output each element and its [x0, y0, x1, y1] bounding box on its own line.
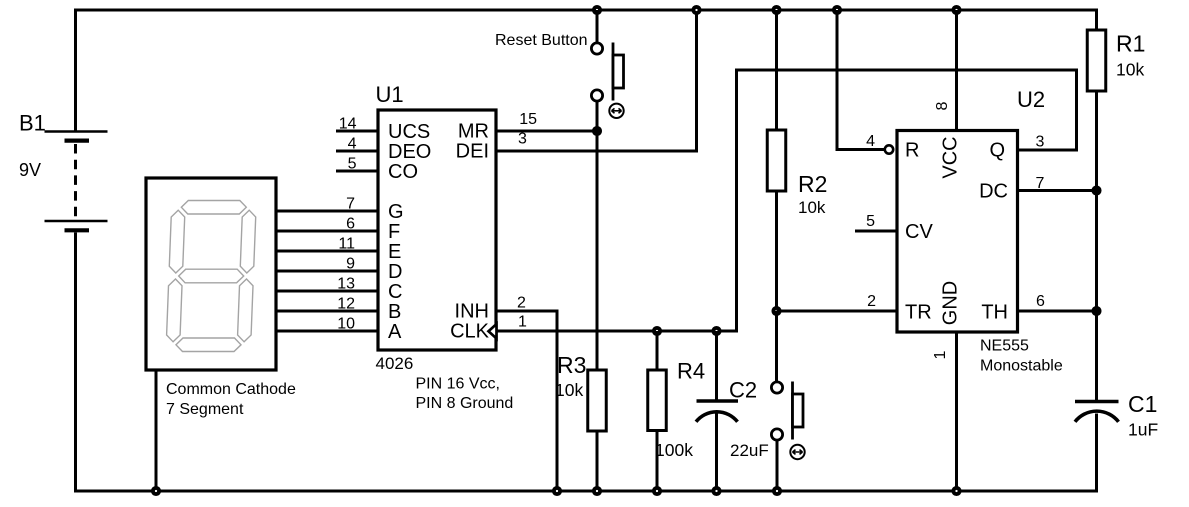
- svg-text:7: 7: [1036, 175, 1045, 192]
- svg-text:B: B: [388, 301, 401, 323]
- wire: battery bottom lead: [74, 233, 77, 493]
- junction: C2 / ground rail: [713, 488, 719, 494]
- svg-text:5: 5: [348, 156, 357, 173]
- wire: R3 to ground rail: [596, 431, 599, 491]
- wire: trigger node to TR pin: [777, 310, 898, 313]
- svg-text:G: G: [388, 201, 404, 223]
- svg-text:10k: 10k: [798, 198, 826, 217]
- wire: DC pin 7 to R1 net: [1018, 189, 1097, 192]
- resistor R4: [648, 370, 667, 431]
- wire: bottom ground rail: [76, 490, 1097, 493]
- wire: top rail to R pin of U2: [837, 10, 884, 150]
- svg-text:A: A: [388, 321, 402, 343]
- inversion bubble on R pin: [885, 145, 893, 153]
- svg-text:C2: C2: [729, 378, 757, 403]
- svg-text:4026: 4026: [376, 354, 414, 373]
- 7-segment digit segments: [167, 201, 256, 352]
- svg-text:14: 14: [339, 116, 357, 133]
- svg-text:7: 7: [346, 196, 355, 213]
- wire: trigger node to button SW2: [775, 311, 778, 382]
- wire: CLK net to R4: [656, 331, 659, 370]
- svg-text:CO: CO: [388, 161, 418, 183]
- svg-text:PIN 16 Vcc,: PIN 16 Vcc,: [416, 376, 500, 393]
- svg-text:5: 5: [866, 213, 875, 230]
- svg-text:D: D: [388, 261, 402, 283]
- op IC U1 4026 box: [378, 110, 496, 350]
- junction: trigger node: [773, 308, 779, 314]
- svg-text:F: F: [388, 221, 400, 243]
- svg-text:R2: R2: [798, 171, 827, 197]
- junction: GND / ground rail: [953, 488, 959, 494]
- capacitor C2: [696, 401, 738, 422]
- wire: battery top lead: [74, 9, 77, 132]
- wire: feedback 555 output to CLK: [737, 70, 1077, 331]
- wire: segment line pin 9: [276, 270, 379, 273]
- svg-text:6: 6: [346, 216, 355, 233]
- svg-text:PIN 8 Ground: PIN 8 Ground: [416, 395, 514, 412]
- svg-text:DC: DC: [979, 181, 1008, 203]
- wire: CLK pin 1 line: [496, 330, 738, 333]
- junction: R3 / ground rail: [594, 488, 600, 494]
- junction: VCC / top rail: [953, 7, 959, 13]
- wire: segment line pin 12: [276, 310, 379, 313]
- svg-text:100k: 100k: [655, 440, 693, 460]
- wire: segment line pin 11: [276, 250, 379, 253]
- svg-text:TR: TR: [905, 302, 932, 324]
- junction: INH / ground rail: [554, 488, 560, 494]
- junction: cathode/ground rail: [153, 488, 159, 494]
- svg-text:MR: MR: [458, 121, 489, 143]
- wire: GND pin 1 to ground rail: [955, 332, 958, 491]
- wire: U1 pin 14 stub: [336, 130, 379, 133]
- wire: C1 to ground rail: [1095, 414, 1098, 493]
- svg-text:CV: CV: [905, 221, 933, 243]
- battery B1: [45, 132, 108, 231]
- svg-text:C1: C1: [1128, 391, 1157, 417]
- svg-text:11: 11: [338, 236, 355, 253]
- svg-text:13: 13: [337, 276, 355, 293]
- junction: C2 / CLK net: [713, 328, 719, 334]
- svg-text:12: 12: [337, 296, 355, 313]
- wire: top rail to R2: [775, 10, 778, 130]
- svg-text:3: 3: [1036, 134, 1045, 151]
- svg-text:8: 8: [934, 101, 951, 110]
- svg-text:15: 15: [519, 111, 537, 128]
- svg-text:1uF: 1uF: [1128, 420, 1158, 440]
- capacitor C1: [1075, 402, 1119, 422]
- svg-text:DEI: DEI: [456, 141, 489, 163]
- wire: segment line pin 13: [276, 290, 379, 293]
- svg-text:Q: Q: [989, 140, 1005, 162]
- clock wedge on CLK pin: [489, 324, 497, 339]
- svg-text:22uF: 22uF: [730, 441, 769, 460]
- wire: segment line pin 6: [276, 230, 379, 233]
- svg-text:2: 2: [867, 293, 876, 310]
- wire: R2 to trigger node: [775, 191, 778, 311]
- push button SW1 (reset): [591, 43, 623, 119]
- wire: segment line pin 10: [276, 330, 379, 333]
- wire: reset button to R3: [596, 101, 599, 370]
- junction: MR / reset button net: [594, 128, 600, 134]
- svg-text:6: 6: [1036, 293, 1045, 310]
- svg-text:9V: 9V: [19, 160, 41, 180]
- wire: R1 to DC junction: [1095, 91, 1098, 191]
- junction: reset button / top rail: [594, 7, 600, 13]
- svg-text:VCC: VCC: [940, 136, 962, 178]
- wire: top power rail: [76, 9, 1097, 12]
- svg-text:GND: GND: [940, 281, 962, 325]
- wire: Q pin 3 to feedback: [1018, 149, 1079, 152]
- wire: U1 pin 5 stub: [336, 170, 379, 173]
- svg-text:9: 9: [346, 256, 355, 273]
- svg-text:NE555: NE555: [980, 338, 1029, 355]
- svg-text:E: E: [388, 241, 401, 263]
- svg-text:C: C: [388, 281, 402, 303]
- junction: DEI / top rail: [693, 7, 699, 13]
- svg-text:B1: B1: [19, 111, 46, 136]
- svg-text:R3: R3: [557, 352, 586, 378]
- svg-text:2: 2: [517, 295, 526, 312]
- resistor R2: [767, 130, 786, 191]
- resistor R1: [1087, 30, 1106, 91]
- wire: INH pin 2 to ground rail: [496, 311, 557, 491]
- junction: R2 / top rail: [773, 7, 779, 13]
- wire: CLK net to C2: [715, 331, 718, 400]
- wire: top rail to VCC pin 8: [955, 10, 958, 131]
- svg-text:INH: INH: [455, 301, 489, 323]
- svg-text:1: 1: [932, 350, 949, 359]
- svg-text:UCS: UCS: [388, 121, 430, 143]
- wire: button SW2 to ground rail: [776, 440, 779, 491]
- svg-text:U2: U2: [1017, 87, 1045, 112]
- svg-text:CLK: CLK: [450, 321, 490, 343]
- wire: CV pin 5 stub: [855, 230, 897, 233]
- junction: R4 / CLK net: [654, 328, 660, 334]
- svg-text:Monostable: Monostable: [980, 358, 1063, 375]
- svg-text:7 Segment: 7 Segment: [166, 401, 244, 418]
- svg-text:Reset Button: Reset Button: [495, 32, 588, 49]
- wire: R4 to ground rail: [656, 431, 659, 492]
- wire: C2 to ground rail: [715, 413, 718, 491]
- junction: TH / C1 net: [1093, 308, 1099, 314]
- wire: U1 pin 4 stub: [336, 150, 379, 153]
- wire: segment line pin 7: [276, 210, 379, 213]
- wire: display common cathode to ground rail: [155, 370, 158, 491]
- svg-text:4: 4: [866, 133, 875, 150]
- svg-text:4: 4: [348, 136, 357, 153]
- svg-text:Common Cathode: Common Cathode: [166, 381, 296, 398]
- wire: DC junction to TH junction: [1095, 191, 1098, 312]
- svg-text:U1: U1: [376, 82, 404, 107]
- svg-text:R4: R4: [677, 359, 705, 384]
- wire: top rail to R1: [1095, 9, 1098, 31]
- svg-text:R: R: [905, 140, 919, 162]
- svg-text:3: 3: [518, 131, 527, 148]
- timer IC U2 NE555 box: [897, 131, 1018, 333]
- push button SW2 (trigger): [771, 382, 804, 460]
- svg-text:10k: 10k: [555, 380, 583, 400]
- resistor R3: [588, 370, 607, 431]
- svg-text:1: 1: [518, 314, 527, 331]
- svg-text:10: 10: [337, 316, 355, 333]
- junction: SW2 / ground rail: [774, 488, 780, 494]
- svg-text:DEO: DEO: [388, 141, 431, 163]
- junction: DC / R1 net: [1093, 187, 1099, 193]
- wire: MR pin 15 to reset button: [496, 130, 597, 133]
- wire: TH junction to C1: [1095, 311, 1098, 401]
- svg-text:R1: R1: [1116, 31, 1145, 57]
- wire: TH pin 6 to C1 net: [1018, 310, 1097, 313]
- wire: top rail to reset button: [596, 10, 599, 42]
- junction: R4 / ground rail: [654, 488, 660, 494]
- svg-text:10k: 10k: [1116, 60, 1144, 80]
- wire: DEI pin 3 to top rail: [496, 10, 697, 151]
- svg-text:TH: TH: [981, 302, 1008, 324]
- 7-segment display box: [146, 178, 276, 370]
- junction: reset net / top rail: [834, 7, 840, 13]
